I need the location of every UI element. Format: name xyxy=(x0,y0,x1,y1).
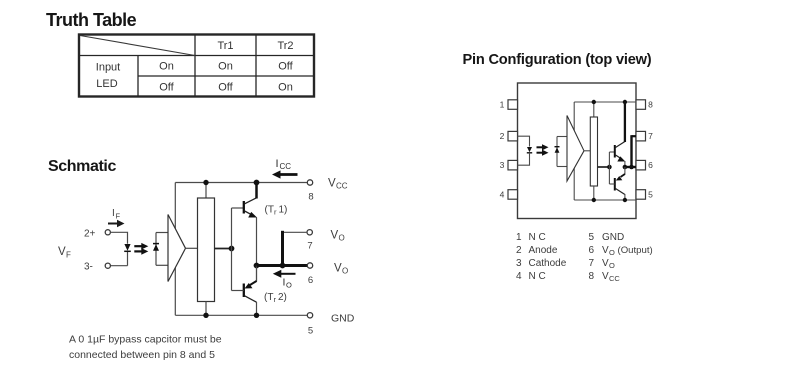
photodiode xyxy=(153,233,159,266)
svg-text:5: 5 xyxy=(589,232,595,243)
junction dot resistor bottom xyxy=(203,313,208,318)
svg-text:4: 4 xyxy=(516,271,522,282)
label VO pin6 xyxy=(334,263,348,276)
svg-text:1: 1 xyxy=(500,100,505,110)
svg-text:I: I xyxy=(283,277,286,289)
svg-text:5: 5 xyxy=(648,190,653,200)
svg-text:I: I xyxy=(276,158,279,170)
bottom rail wire xyxy=(175,314,307,316)
svg-text:6: 6 xyxy=(589,245,595,256)
svg-text:connected between pin 8 and 5: connected between pin 8 and 5 xyxy=(69,349,215,361)
label IF xyxy=(112,208,121,221)
svg-text:O: O xyxy=(339,234,345,243)
LED diode xyxy=(124,244,131,251)
svg-text:Off: Off xyxy=(218,82,233,94)
junction dot internal output node xyxy=(623,165,628,170)
package pin 1 xyxy=(508,100,518,110)
label VO pin7 xyxy=(331,230,345,243)
svg-text:Anode: Anode xyxy=(529,245,558,256)
svg-text:(T: (T xyxy=(264,292,273,303)
internal output wire to pin6 xyxy=(625,166,636,168)
light emission arrows xyxy=(134,243,148,255)
arrow IF xyxy=(108,220,125,227)
svg-text:7: 7 xyxy=(589,258,595,269)
resistor R xyxy=(198,183,215,316)
svg-text:7: 7 xyxy=(648,131,653,141)
wire LED to pin3 xyxy=(110,265,127,267)
internal LED diode xyxy=(527,147,532,153)
internal transistor Tr1 xyxy=(609,102,625,167)
internal light arrows xyxy=(537,144,549,156)
wire base vertical xyxy=(231,208,233,291)
svg-text:O: O xyxy=(342,267,348,276)
truth table frame xyxy=(79,35,314,97)
internal amplifier triangle xyxy=(567,116,584,182)
svg-text:Off: Off xyxy=(278,61,293,73)
svg-text:4: 4 xyxy=(500,190,505,200)
label IO xyxy=(283,277,293,290)
svg-text:1: 1 xyxy=(516,232,522,243)
svg-text:LED: LED xyxy=(96,78,117,90)
wire resistor to base node xyxy=(215,248,232,250)
svg-text:A 0 1µF bypass capcitor must b: A 0 1µF bypass capcitor must be xyxy=(69,334,222,346)
svg-text:Cathode: Cathode xyxy=(529,258,567,269)
svg-text:O: O xyxy=(286,281,292,290)
internal photodiode bracket xyxy=(557,137,567,167)
terminal pin 8 xyxy=(307,180,312,185)
top rail wire xyxy=(175,182,307,184)
svg-text:CC: CC xyxy=(609,274,620,283)
pin list left xyxy=(516,232,567,282)
internal amp output wire xyxy=(584,150,590,152)
junction dot internal Tr2 collector xyxy=(623,198,627,202)
svg-text:V: V xyxy=(602,271,609,282)
truth table diagonal xyxy=(80,36,195,56)
svg-text:2): 2) xyxy=(278,292,287,303)
svg-text:8: 8 xyxy=(648,100,653,110)
terminal pin 6 xyxy=(307,263,312,268)
label VF xyxy=(58,246,71,260)
svg-text:V: V xyxy=(334,263,342,275)
label VCC xyxy=(328,178,348,191)
wire output thick xyxy=(257,264,308,267)
svg-text:V: V xyxy=(602,245,609,256)
wire pin7 horizontal xyxy=(283,231,308,233)
wire amp output xyxy=(186,247,198,249)
junction dot internal base xyxy=(607,165,612,170)
junction dot Tr1 collector xyxy=(254,180,260,186)
svg-text:3: 3 xyxy=(516,258,522,269)
label (Tr 1) xyxy=(265,205,288,217)
package pin 7 xyxy=(636,131,646,141)
photodiode bracket wires xyxy=(156,233,168,266)
svg-text:V: V xyxy=(58,246,66,258)
svg-text:2: 2 xyxy=(500,131,505,141)
svg-text:CC: CC xyxy=(280,162,292,171)
terminal pin 7 xyxy=(307,230,312,235)
svg-text:3-: 3- xyxy=(84,262,93,273)
svg-text:3: 3 xyxy=(500,160,505,170)
svg-text:GND: GND xyxy=(331,313,355,325)
arrow IO xyxy=(273,270,296,278)
package pin 2 xyxy=(508,131,518,141)
internal photodiode xyxy=(555,137,560,167)
pin list right xyxy=(589,232,653,283)
svg-text:On: On xyxy=(278,82,293,94)
svg-text:8: 8 xyxy=(589,271,595,282)
package pin 4 xyxy=(508,190,518,200)
pin number labels left xyxy=(500,100,505,200)
transistor Tr1 xyxy=(232,183,258,266)
svg-text:O: O xyxy=(609,261,615,270)
svg-text:GND: GND xyxy=(602,232,624,243)
internal bottom rail xyxy=(574,199,636,201)
pin number labels right xyxy=(648,100,653,200)
internal base vertical wire xyxy=(608,152,610,184)
svg-text:CC: CC xyxy=(336,182,348,191)
svg-text:2: 2 xyxy=(516,245,522,256)
truth table text xyxy=(96,40,294,94)
svg-text:V: V xyxy=(328,178,336,190)
junction dot internal resistor bottom xyxy=(592,198,596,202)
internal pin7 thick wire xyxy=(632,135,637,167)
junction dot internal Tr1 collector xyxy=(623,100,627,104)
internal left rail xyxy=(573,102,575,200)
svg-text:F: F xyxy=(116,212,121,221)
svg-text:Tr1: Tr1 xyxy=(217,40,233,52)
label (Tr 2) xyxy=(264,292,287,304)
terminal pin 2 xyxy=(105,230,110,235)
junction dot Tr2 collector xyxy=(254,313,259,318)
label ICC xyxy=(276,158,292,171)
junction dot internal resistor top xyxy=(592,100,596,104)
terminal pin 3 xyxy=(105,263,110,268)
svg-text:F: F xyxy=(66,251,71,260)
svg-text:6: 6 xyxy=(648,160,653,170)
svg-text:(T: (T xyxy=(265,205,274,216)
svg-text:1): 1) xyxy=(279,205,288,216)
junction dot internal pin7 xyxy=(629,165,634,170)
svg-text:N C: N C xyxy=(529,232,546,243)
svg-text:V: V xyxy=(331,230,339,242)
internal transistor Tr2 xyxy=(609,167,625,200)
svg-text:I: I xyxy=(112,208,115,219)
package pin 3 xyxy=(508,160,518,170)
svg-text:Schmatic: Schmatic xyxy=(48,158,116,175)
svg-text:On: On xyxy=(159,61,174,73)
svg-text:V: V xyxy=(602,258,609,269)
LED anode-cathode wire xyxy=(127,251,129,265)
junction dot resistor top xyxy=(203,180,208,185)
wire pin2 to internal LED xyxy=(518,136,530,146)
svg-text:Off: Off xyxy=(159,82,174,94)
wire LED to pin3 xyxy=(518,153,530,165)
svg-text:2+: 2+ xyxy=(84,229,96,240)
svg-text:O: O xyxy=(609,248,615,257)
package pin 5 xyxy=(636,190,646,200)
left rail wire xyxy=(174,183,176,316)
junction dot output node xyxy=(254,263,260,269)
svg-text:On: On xyxy=(218,61,233,73)
svg-text:Tr2: Tr2 xyxy=(277,40,293,52)
svg-text:7: 7 xyxy=(307,241,312,252)
svg-text:8: 8 xyxy=(308,192,313,203)
wire pin2 to LED xyxy=(110,232,127,244)
package pin 8 xyxy=(636,100,646,110)
junction dot base node xyxy=(229,246,235,252)
DIP package body xyxy=(518,83,637,219)
amplifier triangle xyxy=(168,215,186,282)
internal base wire xyxy=(598,166,610,168)
svg-text:Pin Configuration (top view): Pin Configuration (top view) xyxy=(463,52,652,68)
svg-text:6: 6 xyxy=(308,275,313,286)
svg-text:Truth Table: Truth Table xyxy=(46,10,137,30)
arrow ICC xyxy=(272,170,298,178)
internal top rail xyxy=(574,101,636,103)
svg-text:N C: N C xyxy=(529,271,546,282)
package pin 6 xyxy=(636,160,646,170)
internal resistor xyxy=(590,102,597,200)
wire pin7 vertical thick xyxy=(281,231,284,266)
terminal pin 5 xyxy=(307,313,312,318)
svg-text:(Output): (Output) xyxy=(618,245,653,256)
svg-text:Input: Input xyxy=(96,62,120,74)
svg-text:5: 5 xyxy=(308,326,313,337)
transistor Tr2 xyxy=(232,266,257,316)
junction dot pin7 wire xyxy=(280,263,286,269)
